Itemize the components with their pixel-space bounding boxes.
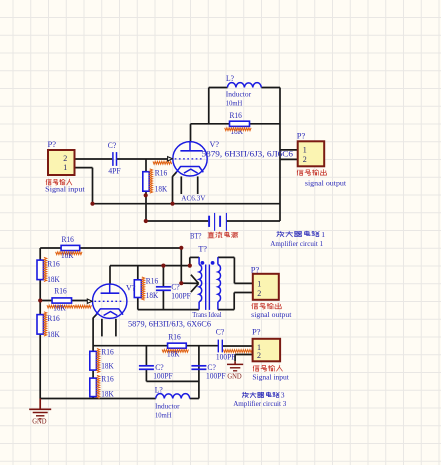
svg-text:signal output: signal output — [251, 310, 292, 319]
svg-text:C?: C? — [171, 282, 180, 291]
svg-text:signal output: signal output — [305, 179, 347, 188]
svg-text:GND: GND — [227, 372, 242, 381]
svg-text:AC6.3V: AC6.3V — [181, 193, 206, 202]
svg-text:R16: R16 — [155, 168, 167, 177]
svg-text:R16: R16 — [101, 347, 113, 356]
svg-text:BT?: BT? — [190, 232, 202, 241]
svg-text:2: 2 — [257, 351, 261, 360]
svg-text:Inductor: Inductor — [155, 402, 180, 411]
svg-text:R16: R16 — [230, 111, 242, 120]
svg-text:18K: 18K — [167, 349, 180, 358]
svg-text:T?: T? — [198, 244, 207, 253]
svg-text:1: 1 — [257, 280, 261, 289]
svg-text:R16: R16 — [101, 374, 113, 383]
svg-text:2: 2 — [303, 155, 307, 164]
svg-text:R16: R16 — [62, 235, 74, 244]
svg-text:GND: GND — [32, 417, 47, 426]
svg-text:V?: V? — [210, 140, 220, 149]
svg-text:C?: C? — [207, 363, 216, 372]
svg-text:10mH: 10mH — [155, 411, 172, 420]
svg-text:4PF: 4PF — [108, 166, 121, 175]
svg-text:100PF: 100PF — [216, 353, 236, 362]
svg-text:R16: R16 — [54, 287, 66, 296]
svg-text:L?: L? — [155, 386, 163, 395]
svg-text:18K: 18K — [155, 185, 168, 194]
svg-text:2: 2 — [257, 289, 261, 298]
svg-text:C?: C? — [216, 328, 225, 337]
svg-text:5879, 6Н3П/6J3, 6Л6С6: 5879, 6Н3П/6J3, 6Л6С6 — [202, 149, 294, 158]
svg-text:R16: R16 — [146, 276, 158, 285]
svg-text:5879, 6Н3П/6J3, 6X6C6: 5879, 6Н3П/6J3, 6X6C6 — [128, 319, 211, 328]
svg-text:18K: 18K — [47, 330, 60, 339]
svg-text:P?: P? — [252, 327, 261, 336]
svg-text:C?: C? — [108, 141, 117, 150]
svg-text:R16: R16 — [47, 259, 59, 268]
svg-text:R16: R16 — [47, 314, 59, 323]
svg-text:Amplifier circuit 3: Amplifier circuit 3 — [233, 399, 286, 408]
svg-text:100PF: 100PF — [171, 292, 191, 301]
svg-text:L?: L? — [226, 74, 234, 83]
svg-text:1: 1 — [321, 230, 325, 239]
svg-text:18K: 18K — [146, 291, 159, 300]
svg-text:10mH: 10mH — [226, 99, 243, 108]
svg-text:V?: V? — [126, 283, 136, 292]
svg-text:R16: R16 — [168, 333, 180, 342]
svg-text:18K: 18K — [53, 303, 66, 312]
svg-text:Trans Ideal: Trans Ideal — [192, 310, 221, 319]
svg-text:1: 1 — [303, 146, 307, 155]
svg-text:18K: 18K — [47, 275, 60, 284]
svg-text:P?: P? — [251, 265, 260, 274]
svg-text:Amplifier circuit 1: Amplifier circuit 1 — [270, 239, 323, 248]
svg-text:Signal input: Signal input — [252, 373, 289, 382]
svg-text:1: 1 — [63, 163, 67, 172]
svg-text:Inductor: Inductor — [226, 90, 252, 99]
svg-text:P?: P? — [48, 140, 57, 149]
svg-text:Signal input: Signal input — [45, 185, 85, 194]
svg-text:C?: C? — [155, 363, 164, 372]
svg-text:18K: 18K — [61, 251, 74, 260]
svg-text:18K: 18K — [101, 389, 114, 398]
svg-text:100PF: 100PF — [206, 372, 226, 381]
svg-text:18K: 18K — [101, 362, 114, 371]
svg-text:2: 2 — [63, 154, 67, 163]
svg-text:100PF: 100PF — [153, 372, 173, 381]
svg-text:P?: P? — [297, 132, 306, 141]
